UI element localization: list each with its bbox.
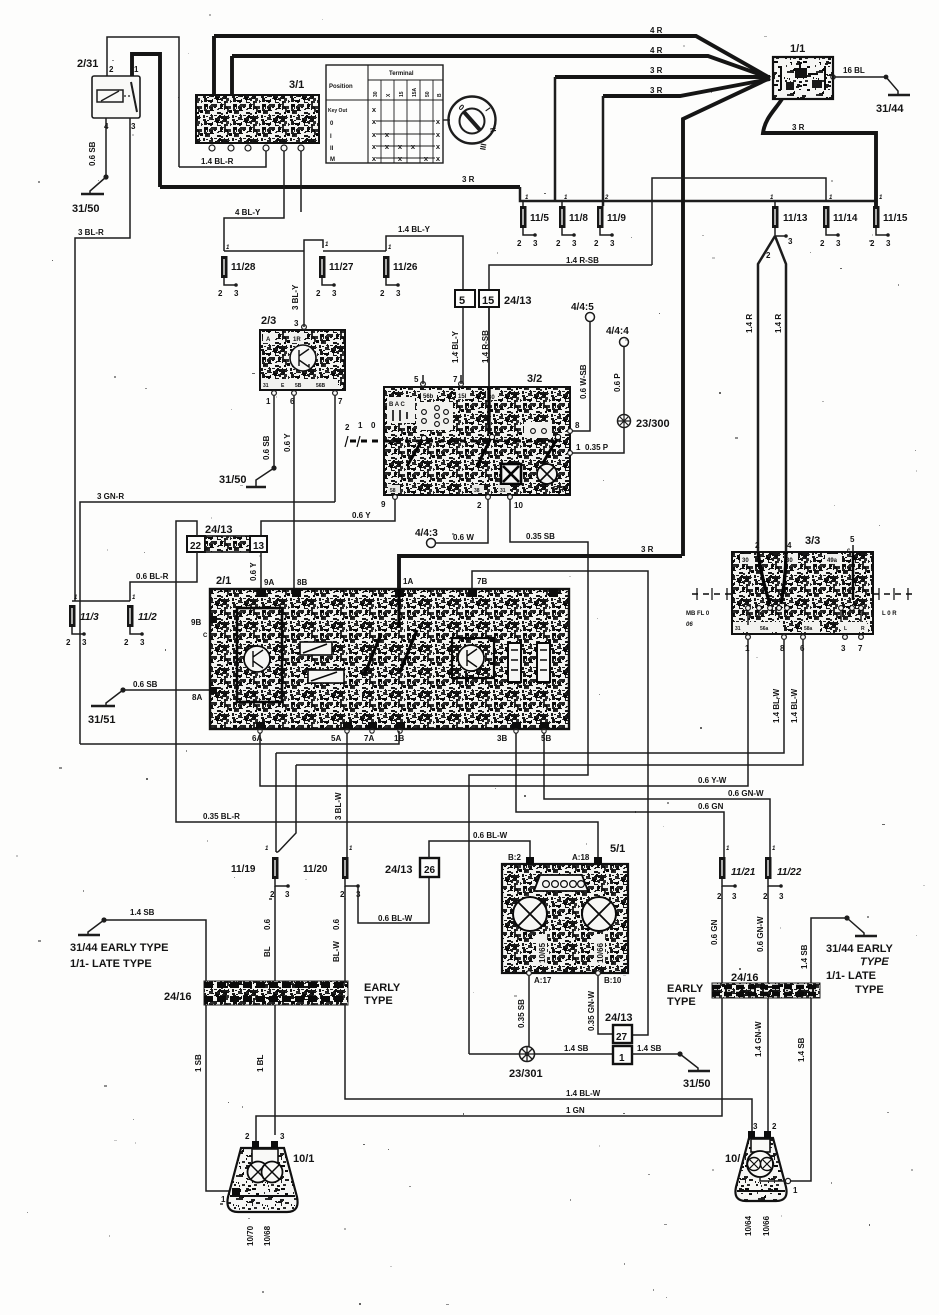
ground 31/50 bottom	[680, 1054, 698, 1070]
wire 4 BL-Y	[224, 151, 284, 251]
5/1 bulb 10/66	[582, 897, 616, 931]
svg-text:0: 0	[371, 421, 376, 430]
svg-text:1: 1	[266, 397, 271, 406]
svg-text:1A: 1A	[403, 577, 413, 586]
svg-text:8: 8	[575, 421, 580, 430]
wire 2/31 pin1 feed (thick) to 3R rail	[132, 54, 160, 187]
fuse 11/27	[319, 256, 326, 278]
svg-text:2: 2	[218, 289, 223, 298]
svg-text:0.35 SB: 0.35 SB	[517, 999, 526, 1028]
fuse 11/28	[221, 256, 228, 278]
wire 0.6 GN-W / 1.4 GN-W from 11/22 to right lamp pin2	[767, 886, 769, 1133]
3/2 top pins	[421, 382, 426, 387]
3/2 right pins 8 and 1	[568, 429, 573, 434]
svg-text:11/19: 11/19	[231, 864, 256, 875]
svg-text:50: 50	[425, 91, 431, 97]
3/2 thermal breaker box	[501, 464, 521, 484]
wire 0.6 Y from 3/2 pin9 to 24/13 pin13	[261, 499, 395, 536]
wire 0.35 SB from A:17 to 23/301	[528, 976, 530, 1047]
svg-text:2: 2	[766, 251, 771, 260]
svg-text:1.4 BL-W: 1.4 BL-W	[772, 688, 781, 723]
svg-text:L 0 R: L 0 R	[882, 611, 897, 617]
svg-text:49a: 49a	[827, 558, 838, 564]
bulb 23/301	[520, 1047, 535, 1062]
svg-text:1: 1	[576, 443, 581, 452]
fuse 11/8	[561, 201, 563, 206]
wire 4 R (upper)	[214, 36, 770, 78]
2/1 interior: right relay	[452, 638, 494, 678]
svg-text:3: 3	[886, 239, 891, 248]
wire 1.4 SB right ground to right lamp pin1	[791, 918, 847, 1181]
relay 2/31 contact blade	[131, 82, 137, 112]
lamp 10/1 pins	[252, 1141, 259, 1148]
svg-text:0.6 W-SB: 0.6 W-SB	[579, 364, 588, 399]
svg-text:1: 1	[221, 1195, 226, 1204]
5/1 connector trapezoid	[534, 875, 588, 891]
svg-text:38: 38	[474, 488, 480, 494]
svg-text:0.6 GN: 0.6 GN	[710, 919, 719, 945]
svg-text:3: 3	[841, 644, 846, 653]
svg-text:8: 8	[780, 644, 785, 653]
svg-text:0.6: 0.6	[332, 918, 341, 930]
svg-text:23/301: 23/301	[509, 1068, 543, 1080]
svg-text:7A: 7A	[364, 734, 374, 743]
svg-text:B:10: B:10	[604, 976, 622, 985]
fuse 11/15	[873, 206, 880, 228]
svg-text:0.6 SB: 0.6 SB	[88, 141, 97, 166]
fuse 11/2	[127, 605, 134, 627]
wire 1.4 BL-R	[179, 151, 266, 167]
3/3 inside labels	[740, 554, 754, 564]
2/1 top pin squares	[257, 589, 558, 597]
svg-text:1 GN: 1 GN	[566, 1106, 585, 1115]
svg-text:23/300: 23/300	[636, 418, 670, 430]
svg-text:24/13: 24/13	[205, 524, 233, 536]
svg-text:7: 7	[858, 644, 863, 653]
svg-text:0.6 Y: 0.6 Y	[283, 433, 292, 452]
svg-text:1.4 BL-W: 1.4 BL-W	[566, 1089, 601, 1098]
svg-text:2: 2	[477, 501, 482, 510]
svg-text:1/1- LATE TYPE: 1/1- LATE TYPE	[70, 958, 152, 970]
wire 3 R to 2/1 pin 1A	[399, 556, 682, 589]
svg-text:4: 4	[787, 541, 792, 550]
2/1 bottom pin squares	[256, 722, 549, 729]
svg-text:3: 3	[533, 239, 538, 248]
svg-text:1.4 BL-R: 1.4 BL-R	[201, 157, 234, 166]
wire stub from 3/1 terminal to fuse bus	[301, 151, 323, 252]
svg-text:3B: 3B	[497, 734, 507, 743]
svg-text:1.4 BL-Y: 1.4 BL-Y	[451, 330, 460, 363]
svg-text:5: 5	[850, 535, 855, 544]
wire 0.6 BL from 11/19 to lamp 10/1 pin3	[274, 886, 276, 1135]
svg-text:31/50: 31/50	[72, 203, 100, 215]
svg-text:3: 3	[732, 892, 737, 901]
svg-text:0.6 GN-W: 0.6 GN-W	[728, 789, 764, 798]
svg-text:15A: 15A	[412, 87, 418, 97]
svg-text:8B: 8B	[297, 578, 307, 587]
svg-text:2: 2	[245, 1132, 250, 1141]
wire 3R main rail	[160, 185, 520, 189]
svg-text:Key Out: Key Out	[328, 108, 348, 114]
fuse 11/13 output split to two 1.4R wires	[775, 228, 786, 236]
svg-text:31: 31	[263, 383, 269, 389]
wire 0.6 GN / 1 GN from 11/21 to lamp 10/1 pin2	[256, 886, 722, 1141]
svg-text:58a: 58a	[804, 626, 813, 632]
svg-text:11/26: 11/26	[393, 262, 418, 273]
svg-text:1.4 R: 1.4 R	[745, 314, 754, 333]
svg-text:24/13: 24/13	[504, 295, 532, 307]
3/1 bottom terminals	[209, 145, 304, 151]
fuse 11/20	[342, 857, 349, 879]
svg-text:4 R: 4 R	[650, 26, 663, 35]
svg-text:9A: 9A	[264, 578, 274, 587]
svg-text:0.6 GN-W: 0.6 GN-W	[756, 916, 765, 952]
svg-text:0.6: 0.6	[263, 918, 272, 930]
svg-text:0.35 SB: 0.35 SB	[526, 532, 555, 541]
ground 31/44 left (early type)	[101, 917, 106, 922]
svg-text:3: 3	[280, 1132, 285, 1141]
svg-text:11/28: 11/28	[231, 262, 256, 273]
5/1 bottom pins A:17 B:10	[527, 971, 532, 976]
svg-text:11/2: 11/2	[138, 612, 157, 623]
svg-text:31/51: 31/51	[88, 714, 116, 726]
3/2 switch blades	[407, 437, 424, 466]
svg-text:Position: Position	[329, 84, 353, 90]
svg-text:C: C	[203, 633, 208, 639]
lamp 10/2 right	[735, 1138, 786, 1201]
2/1 interior: middle switch blades	[397, 589, 400, 627]
3/3 blades	[758, 552, 770, 604]
svg-text:9B: 9B	[191, 618, 201, 627]
svg-text:15: 15	[399, 91, 405, 97]
svg-text:1.4 SB: 1.4 SB	[637, 1044, 662, 1053]
svg-text:7B: 7B	[477, 577, 487, 586]
connector 24/13 pin 5	[455, 290, 475, 307]
svg-text:TYPE: TYPE	[364, 995, 393, 1007]
wire 0.6 BL-R from fuses 11/3 11/2 to pin22	[72, 552, 197, 601]
svg-text:1R: 1R	[293, 337, 301, 343]
svg-text:4 BL-Y: 4 BL-Y	[235, 208, 261, 217]
fuse 11/14	[823, 206, 830, 228]
svg-text:1.4 BL-W: 1.4 BL-W	[790, 688, 799, 723]
svg-text:24/16: 24/16	[164, 991, 192, 1003]
svg-text:4/4:4: 4/4:4	[606, 326, 629, 337]
svg-text:Terminal: Terminal	[389, 71, 414, 77]
wire 16 BL	[833, 76, 886, 78]
wire 1.4 BL-W from 11/20 pin2 to right lamp pin3	[345, 886, 752, 1133]
wire 0.6 SB to 2/1 8A	[123, 689, 210, 691]
wire 11/19 feeds	[276, 753, 296, 852]
svg-text:3 R: 3 R	[650, 66, 663, 75]
svg-text:1.4 R-SB: 1.4 R-SB	[481, 330, 490, 363]
svg-text:3 R: 3 R	[462, 175, 475, 184]
svg-text:1/1: 1/1	[790, 43, 805, 55]
svg-text:1: 1	[619, 1053, 625, 1064]
svg-text:11/8: 11/8	[569, 213, 588, 224]
svg-text:5: 5	[414, 375, 419, 384]
svg-text:2: 2	[772, 1122, 777, 1131]
fuse 11/22	[765, 857, 772, 879]
ignition switch 3/1	[196, 95, 319, 143]
svg-text:6A: 6A	[252, 734, 262, 743]
relay 2/3	[260, 330, 345, 390]
svg-text:MB FL 0: MB FL 0	[686, 611, 710, 617]
svg-text:10/68: 10/68	[263, 1225, 272, 1246]
wire to 3/3 pin6	[296, 640, 803, 765]
3/2 left contact marks	[393, 410, 407, 421]
svg-text:3: 3	[610, 239, 615, 248]
wire 0.6 SB from 2/31 pin4	[105, 118, 107, 177]
svg-text:3: 3	[294, 319, 299, 328]
5/1 bulb 10/65	[513, 897, 547, 931]
svg-text:3: 3	[753, 1122, 758, 1131]
svg-text:3: 3	[140, 638, 145, 647]
svg-text:PR: PR	[553, 485, 564, 494]
svg-text:31: 31	[735, 626, 741, 632]
svg-text:11/22: 11/22	[777, 867, 802, 878]
wire 1.4 R-SB vertical into 3/2 pin 30	[488, 306, 490, 387]
2/1 interior: left relay	[237, 608, 282, 702]
svg-text:11/14: 11/14	[833, 213, 858, 224]
switch 3/2	[384, 387, 570, 495]
wire 3 R from 1/1 to fuse 11/15	[763, 99, 876, 206]
lamp unit 5/1	[502, 864, 628, 973]
ground 31/44 top right	[886, 77, 898, 94]
svg-text:10/65: 10/65	[538, 942, 547, 963]
wire 0.6 SB from 2/3 pin1	[273, 396, 275, 468]
svg-text:11/9: 11/9	[607, 213, 626, 224]
svg-text:30: 30	[742, 558, 749, 564]
svg-text:11/27: 11/27	[329, 262, 354, 273]
svg-text:26: 26	[424, 865, 436, 876]
svg-text:22: 22	[190, 541, 202, 552]
svg-text:3: 3	[836, 239, 841, 248]
svg-text:5/1: 5/1	[610, 843, 625, 855]
lamp 10/2 bulbs	[747, 1151, 773, 1177]
wire 0.35 P from 23/300 to 3/2 pin1	[572, 428, 624, 453]
svg-text:II: II	[330, 146, 334, 152]
connector 24/13 pin 1	[613, 1046, 632, 1064]
svg-text:13: 13	[253, 541, 265, 552]
svg-text:1.4 R-SB: 1.4 R-SB	[566, 256, 599, 265]
svg-text:1: 1	[745, 644, 750, 653]
wire 0.35 SB from 3/2 pin10	[469, 499, 588, 1054]
svg-text:3/3: 3/3	[805, 535, 820, 547]
svg-text:24/13: 24/13	[385, 864, 413, 876]
fuse bus 11/28..11/26	[224, 250, 386, 252]
svg-text:56b: 56b	[423, 394, 434, 400]
wire 1.4 SB from 23/301 to 24/13 pin1	[469, 1053, 613, 1055]
wire 3 R (fourth, from fuse 11/9)	[603, 79, 770, 96]
3/3 bottom pins	[746, 635, 751, 640]
svg-text:9: 9	[381, 500, 386, 509]
wire 0.6 W from 3/2 pin2 to 4/4:3	[436, 499, 488, 543]
central unit 1/1	[773, 57, 833, 99]
svg-text:0.35 P: 0.35 P	[585, 443, 609, 452]
svg-text:5: 5	[459, 295, 465, 307]
wire 3 BL-Y from bus to 2/3 pin 3	[303, 252, 305, 327]
wire 1.4 BL-Y from 11/26 to 3/2 pin 7	[386, 236, 463, 384]
svg-text:TYPE: TYPE	[860, 956, 889, 968]
svg-text:11/21: 11/21	[731, 867, 756, 878]
svg-text:EARLY: EARLY	[364, 982, 401, 994]
svg-text:0.6 BL-W: 0.6 BL-W	[473, 831, 508, 840]
2/1 interior: resistors	[508, 643, 521, 682]
svg-text:A:17: A:17	[534, 976, 552, 985]
3/2 pilot lamp PR	[537, 464, 557, 484]
svg-text:15I: 15I	[458, 394, 467, 400]
svg-text:11/3: 11/3	[80, 612, 99, 623]
wire 2/31 pin2 to 1.4 BL-R	[107, 37, 179, 167]
svg-text:0.6 SB: 0.6 SB	[262, 435, 271, 460]
svg-text:A: A	[266, 337, 271, 343]
svg-text:R: R	[861, 626, 865, 632]
switch 3/3	[732, 552, 873, 634]
svg-text:1.4 BL-Y: 1.4 BL-Y	[398, 225, 431, 234]
wire 0.6 BL-W from pin26 to 5/1 B:2	[429, 841, 530, 858]
wire 1.4 SB / 1 SB to lamp 10/1 pin1	[104, 920, 232, 1191]
svg-text:0.6 GN: 0.6 GN	[698, 802, 724, 811]
svg-text:2: 2	[604, 195, 609, 201]
3/1 position table	[326, 65, 443, 163]
svg-text:1.4 SB: 1.4 SB	[797, 1037, 806, 1062]
svg-text:31/50: 31/50	[219, 474, 247, 486]
svg-text:30: 30	[373, 91, 379, 97]
3/2 dashed selector line	[350, 440, 560, 443]
svg-text:7: 7	[453, 375, 458, 384]
svg-text:3: 3	[234, 289, 239, 298]
wire 0.6 Y from 2/3 pin6 to 2/1 8B	[293, 396, 295, 589]
svg-text:8A: 8A	[192, 693, 202, 702]
svg-text:2: 2	[66, 638, 71, 647]
svg-text:0.35 BL-R: 0.35 BL-R	[203, 812, 240, 821]
svg-text:L: L	[844, 626, 847, 632]
svg-text:TYPE: TYPE	[855, 984, 884, 996]
svg-text:0.35 GN-W: 0.35 GN-W	[587, 991, 596, 1031]
svg-text:10/66: 10/66	[762, 1215, 771, 1236]
svg-text:1 SB: 1 SB	[194, 1054, 203, 1072]
3/2 pin30 feed (thick)	[487, 387, 490, 434]
svg-text:10/1: 10/1	[293, 1153, 314, 1165]
3/3 contact circles	[746, 606, 864, 611]
svg-text:3: 3	[572, 239, 577, 248]
fuse 11/3	[69, 605, 76, 627]
svg-text:3 GN-R: 3 GN-R	[97, 492, 124, 501]
svg-text:0.6 Y: 0.6 Y	[249, 562, 258, 581]
svg-text:B A C: B A C	[389, 402, 406, 408]
wire 0.6 P from 4/4:4 to 23/300	[623, 347, 625, 414]
svg-text:1: 1	[134, 65, 139, 74]
wire 0.6 GN from 3B to fuse 11/21	[516, 733, 724, 857]
ground 31/50 mid-left	[256, 468, 274, 486]
svg-text:0.6 BL-R: 0.6 BL-R	[136, 572, 169, 581]
svg-text:2: 2	[594, 239, 599, 248]
svg-text:1.4 SB: 1.4 SB	[564, 1044, 589, 1053]
svg-text:11/5: 11/5	[530, 213, 549, 224]
svg-text:31: 31	[500, 488, 506, 494]
svg-text:58: 58	[390, 488, 396, 494]
svg-text:56B: 56B	[316, 383, 326, 389]
central electrical unit 2/1	[210, 589, 569, 729]
2/3 internal symbol	[290, 345, 316, 371]
2/3 top pin 3	[302, 325, 307, 330]
svg-text:5B: 5B	[295, 383, 302, 389]
wire 0.6 GN-W from 5B to fuse 11/22	[544, 733, 770, 857]
svg-text:4/4:5: 4/4:5	[571, 302, 594, 313]
3/3 selector dashes right	[873, 593, 912, 595]
svg-text:2/3: 2/3	[261, 315, 276, 327]
3/3 selector dashes left	[692, 593, 732, 595]
svg-text:3 BL-R: 3 BL-R	[78, 228, 104, 237]
svg-text:2: 2	[820, 239, 825, 248]
svg-text:3 BL-Y: 3 BL-Y	[291, 284, 300, 310]
lamp 10/1 bulbs	[248, 1162, 269, 1183]
svg-text:1: 1	[358, 421, 363, 430]
fuse 11/21	[719, 857, 726, 879]
lamp 10/1 left	[227, 1148, 297, 1212]
svg-text:3: 3	[131, 122, 136, 131]
3/2 bottom pins 9 2 10	[393, 495, 398, 500]
wire 4 R (second)	[232, 56, 770, 78]
svg-text:2: 2	[517, 239, 522, 248]
wire 3 R (third)	[555, 75, 770, 79]
wire 0.35 BL-R from pin22 to 5/1 A:18	[176, 521, 598, 858]
svg-text:B: B	[437, 93, 443, 97]
svg-text:24/13: 24/13	[605, 1012, 633, 1024]
ground 31/51	[106, 690, 123, 705]
fuse 11/26	[383, 256, 390, 278]
svg-text:3 R: 3 R	[650, 86, 663, 95]
3/2 inside terminal labels	[421, 390, 437, 399]
svg-text:10/64: 10/64	[744, 1215, 753, 1236]
svg-text:56a: 56a	[760, 626, 769, 632]
ignition key symbol	[449, 97, 496, 144]
relay 2/31 coil	[97, 90, 123, 102]
svg-text:3/2: 3/2	[527, 373, 542, 385]
lamp 10/2 pins	[748, 1131, 755, 1138]
fuse 11/13	[774, 201, 776, 206]
svg-text:0.6 BL-W: 0.6 BL-W	[378, 914, 413, 923]
5/1 top pins B:2 A:18	[526, 857, 534, 865]
svg-text:1.4 GN-W: 1.4 GN-W	[754, 1021, 763, 1057]
svg-text:5A: 5A	[331, 734, 341, 743]
svg-text:5B: 5B	[541, 734, 551, 743]
svg-text:TYPE: TYPE	[667, 996, 696, 1008]
wire from 2/1 7B to 24/13 pin27	[472, 571, 648, 1035]
svg-text:4 R: 4 R	[650, 46, 663, 55]
svg-text:EARLY: EARLY	[667, 983, 704, 995]
svg-text:3/1: 3/1	[289, 79, 304, 91]
svg-text:3 BL-W: 3 BL-W	[334, 792, 343, 820]
svg-text:7: 7	[338, 397, 343, 406]
svg-text:1.4 SB: 1.4 SB	[130, 908, 155, 917]
relay 2/31	[92, 76, 140, 118]
svg-text:3: 3	[285, 890, 290, 899]
wire 3 GN-R	[80, 502, 335, 744]
wire from 2/3 pin7 to 3 GN-R	[334, 396, 336, 502]
svg-text:3: 3	[332, 289, 337, 298]
svg-text:10/70: 10/70	[246, 1225, 255, 1246]
svg-text:2: 2	[345, 423, 350, 432]
svg-text:1: 1	[793, 1186, 798, 1195]
svg-text:11/13: 11/13	[783, 213, 808, 224]
2/1 left pin 9B	[210, 616, 217, 623]
bottom rail to 2/1 pin 1B	[80, 731, 399, 744]
svg-text:A:18: A:18	[572, 853, 590, 862]
svg-text:1.4 R: 1.4 R	[774, 314, 783, 333]
svg-text:6: 6	[800, 644, 805, 653]
svg-text:31/44 EARLY: 31/44 EARLY	[826, 943, 894, 955]
